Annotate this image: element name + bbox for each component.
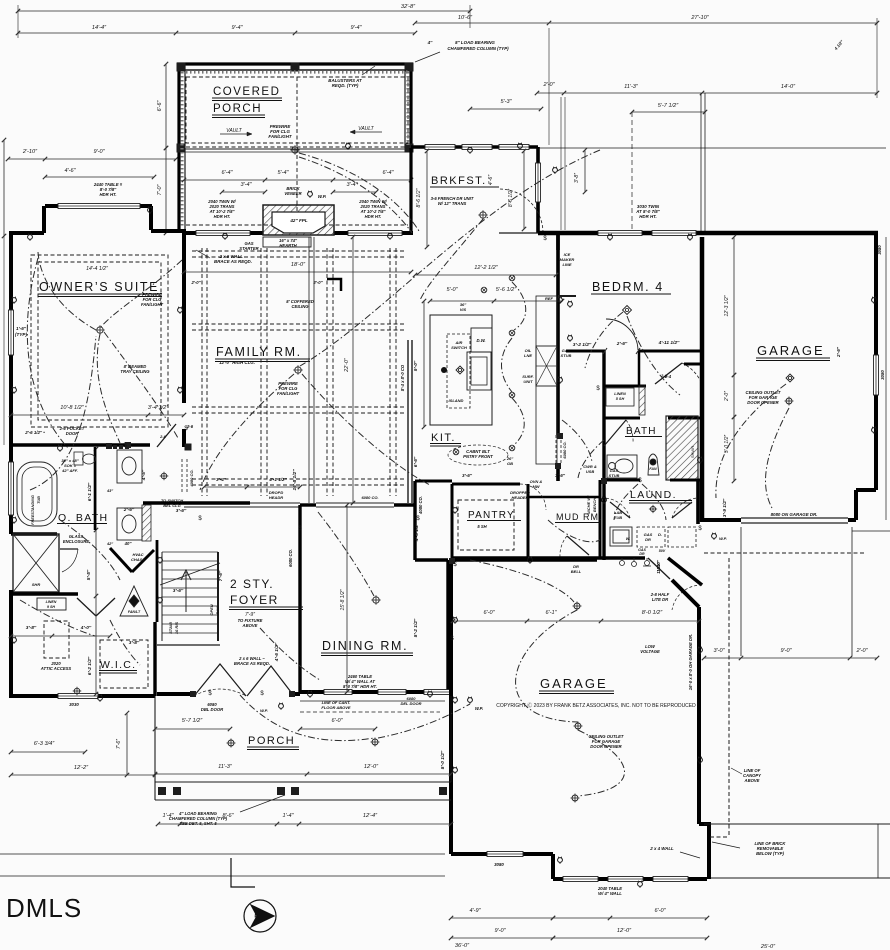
svg-text:TUB: TUB [37, 496, 41, 504]
driveway right edge v [877, 824, 879, 878]
room label DINING RM [321, 639, 413, 656]
svg-text:3′-8″: 3′-8″ [26, 625, 37, 631]
duplex outlet 14 [872, 297, 877, 304]
svg-text:HEADR: HEADR [269, 495, 283, 500]
dim line 12-2.5 [413, 273, 558, 277]
svg-text:KIT.: KIT. [431, 432, 456, 444]
jamb post bath hall [557, 433, 563, 439]
svg-text:TUB: TUB [614, 515, 622, 520]
duplex outlet 6 [178, 307, 183, 314]
room label MUD RM [555, 512, 603, 523]
bedrm4 south wall R [638, 350, 702, 353]
fireplace hatched box [263, 205, 334, 235]
electrical wiring family arc to kit [302, 374, 430, 485]
duplex outlet 34 [12, 637, 17, 644]
porch dashed low h [186, 224, 408, 226]
svg-text:4″: 4″ [427, 40, 434, 45]
dining right jog [415, 558, 448, 561]
jamb post laund [601, 478, 607, 484]
wic bottom window 3030 [58, 694, 98, 699]
porch door outlet [279, 703, 284, 710]
kitchen island sink box [467, 352, 491, 390]
svg-text:BRKFST.: BRKFST. [431, 175, 487, 187]
svg-text:2 x 4 WALL: 2 x 4 WALL [649, 846, 674, 851]
duplex outlet 33 [12, 517, 17, 524]
duplex outlet 7 [178, 387, 183, 394]
dining bottom window3 [424, 690, 450, 695]
closet divider v [638, 351, 641, 386]
owners bottom wall seg1 [11, 443, 150, 446]
pantry-mud divider wall [527, 484, 530, 558]
right short line y531 [852, 530, 890, 532]
svg-text:42″ AFF.: 42″ AFF. [61, 468, 78, 473]
owners wall post a [106, 443, 112, 449]
svg-text:7′-6″: 7′-6″ [218, 570, 224, 581]
svg-text:ABOVE: ABOVE [744, 778, 760, 783]
family coffered dash h2b [192, 412, 404, 414]
family room top wall left seg [184, 231, 263, 235]
svg-text:14′-4 1/2″: 14′-4 1/2″ [86, 266, 108, 272]
electrical wiring porch arc bottom2 [378, 704, 470, 738]
leader line col [415, 52, 440, 62]
garage divider wall [700, 237, 705, 522]
svg-text:RAIL: RAIL [215, 605, 220, 615]
svg-text:3030: 3030 [69, 702, 79, 707]
svg-text:2′-6″: 2′-6″ [836, 346, 841, 358]
electrical wiring owners arc fan to sw [97, 334, 120, 443]
laundry bottom wall [600, 556, 645, 560]
garage top wall (south of pantry) [451, 558, 453, 562]
obath left window [9, 462, 14, 515]
bath door arc sm [626, 420, 633, 443]
svg-text:3′-6″: 3′-6″ [462, 473, 473, 478]
title DMLS [6, 893, 82, 923]
svg-text:FAN: FAN [649, 467, 657, 471]
svg-text:W.I.C.: W.I.C. [100, 659, 136, 671]
svg-text:8′-6 1/2″: 8′-6 1/2″ [508, 189, 514, 208]
wic door diag b [96, 598, 115, 616]
dining right wall upper [413, 481, 416, 560]
garage bottom window B2 [608, 877, 643, 882]
pantry bottom + mud bottom wall [452, 556, 600, 560]
porch light bottom [371, 738, 380, 747]
dim 4'-6 line [43, 175, 156, 179]
canopy solid v left [740, 527, 742, 656]
porch col 1a [158, 787, 166, 795]
dim 5'-7 1/2'' [630, 110, 707, 114]
porch column top-left [177, 63, 186, 72]
wic right wall [153, 622, 156, 696]
svg-text:6′-4″: 6′-4″ [382, 170, 394, 176]
porch slab edge v [154, 696, 156, 800]
stair rail right [217, 552, 219, 641]
garage door south wall left [704, 518, 741, 522]
porch col 1b [173, 787, 181, 795]
svg-text:2′-0″: 2′-0″ [855, 648, 868, 654]
svg-text:3′-8″: 3′-8″ [574, 173, 580, 183]
fan/lt triangle [120, 586, 148, 616]
room label WIC [99, 659, 137, 673]
svg-text:16′-0 x 8′-0 OH GARAGE DR.: 16′-0 x 8′-0 OH GARAGE DR. [688, 634, 693, 690]
dining left wall [298, 505, 301, 692]
pantry top wall [452, 483, 520, 486]
room label BRKFST [430, 175, 499, 187]
room label BEDRM4 [591, 280, 671, 294]
bedrm4 fan [623, 306, 632, 315]
family-kit beam line1 [308, 237, 310, 503]
duplex outlet 22 [453, 617, 458, 624]
kitchen can light 3 [509, 392, 515, 398]
electrical wiring porch arc bottom [240, 695, 374, 741]
svg-text:9′-0″: 9′-0″ [494, 928, 506, 934]
svg-text:W/ 4″ WALL: W/ 4″ WALL [598, 891, 622, 896]
svg-text:4080 CO.: 4080 CO. [189, 469, 194, 487]
obath toilet [74, 452, 96, 465]
svg-text:1′-10″: 1′-10″ [656, 561, 661, 573]
svg-text:W.P.: W.P. [475, 706, 483, 711]
col leader line [240, 795, 285, 812]
dim line 2-0 right [732, 373, 736, 419]
covered porch left wall [177, 64, 180, 233]
svg-text:COPYRIGHT Ⓒ 2023 BY FRANK BETZ: COPYRIGHT Ⓒ 2023 BY FRANK BETZ ASSOCIATE… [496, 702, 696, 709]
dim line garage top [451, 619, 701, 623]
room label COVERED PORCH line1 [212, 86, 282, 101]
north arrow [231, 858, 276, 932]
svg-text:42″: 42″ [106, 542, 113, 546]
dimension 32'-8'' line [16, 9, 472, 13]
bottom ext line long [0, 853, 445, 855]
svg-text:REF: REF [545, 296, 554, 301]
family top window right [348, 231, 402, 236]
hvac hatch band [142, 505, 151, 541]
electrical wiring garage bottom S curve2 [578, 730, 625, 796]
svg-text:6′-6″: 6′-6″ [157, 100, 163, 112]
hall CO dashed b [186, 459, 188, 494]
dim 7'-0 porch v [164, 146, 168, 235]
svg-text:22′-0″: 22′-0″ [344, 357, 350, 373]
svg-text:9′-4″: 9′-4″ [231, 25, 243, 31]
owners left exterior wall [9, 231, 13, 447]
duplex outlet 23 [453, 697, 458, 704]
dim line 18-0 family [182, 270, 413, 274]
svg-text:8′-6 1/2″: 8′-6 1/2″ [416, 188, 422, 207]
svg-text:2′-0″: 2′-0″ [312, 280, 323, 285]
room label BATH [625, 426, 662, 437]
garage right jog [856, 488, 876, 492]
garage bottom window 3080 [487, 852, 523, 857]
jamb post kitchen co [555, 463, 561, 469]
svg-text:LINEN: LINEN [46, 600, 57, 604]
svg-text:FAMILY RM.: FAMILY RM. [216, 345, 302, 359]
duplex outlet 13 [688, 234, 693, 241]
svg-text:4′-3 1/2″: 4′-3 1/2″ [414, 522, 420, 542]
family coffered dash v1b [266, 248, 268, 496]
dim line 8-6.5 brkfst [425, 149, 429, 249]
svg-text:(TYP): (TYP) [15, 332, 27, 337]
svg-text:D.W.: D.W. [477, 338, 486, 343]
porch hatch top [186, 70, 408, 73]
bedrm4 wall ticks [603, 348, 640, 354]
wic bottom wall [11, 694, 155, 698]
electrical wiring bedrm4 arc [585, 312, 623, 368]
electrical wiring owners arc fan to door [104, 332, 178, 438]
duplex outlet 12 [608, 234, 613, 241]
svg-text:5: 5 [254, 912, 260, 924]
kitchen range box [536, 346, 557, 386]
wp outlet drv [712, 533, 717, 540]
family coffered dash h2 [192, 406, 404, 408]
left edge vertical dim line [2, 138, 6, 238]
svg-text:4′-1 1/2″: 4′-1 1/2″ [268, 477, 287, 482]
duplex outlet 20 [602, 497, 607, 504]
svg-text:CHASE: CHASE [131, 557, 145, 562]
svg-text:4′-6″: 4′-6″ [64, 168, 76, 174]
duplex outlet 21 [698, 457, 703, 464]
electrical wiring wic arc [110, 620, 140, 665]
porch slab line left [155, 781, 451, 783]
brkfst light [478, 210, 487, 219]
room label OWNERS SUITE [38, 280, 162, 297]
family coffered dash v2 [326, 248, 328, 496]
svg-text:43″: 43″ [106, 489, 113, 493]
svg-text:BRACE AS REQD.: BRACE AS REQD. [234, 661, 270, 666]
svg-text:BENCH: BENCH [592, 498, 597, 512]
svg-text:GARAGE: GARAGE [757, 343, 825, 358]
ext line x877 [876, 18, 878, 98]
duplex outlet 5 [58, 445, 63, 452]
bottom garage top wall [452, 558, 597, 562]
svg-text:2′-0″: 2′-0″ [724, 391, 730, 402]
electrical wiring garage right arc [716, 384, 786, 498]
bedrm4 window2 [652, 231, 696, 236]
svg-text:CHAMFERED COLUMN (TYP): CHAMFERED COLUMN (TYP) [447, 46, 509, 51]
svg-text:SWITCH: SWITCH [451, 345, 467, 350]
svg-text:5′-3″: 5′-3″ [500, 99, 512, 105]
porch ceiling light [290, 145, 299, 154]
svg-text:5′-0″: 5′-0″ [446, 287, 458, 293]
duplex outlet 31 [158, 557, 163, 564]
svg-text:HEADER: HEADER [512, 495, 529, 500]
room label GARAGE right [756, 343, 830, 361]
svg-text:BELOW (TYP): BELOW (TYP) [756, 851, 784, 856]
kitchen right wall lower [556, 465, 560, 481]
electrical wiring obath arc2 [20, 600, 95, 636]
family coffered dash h1 [192, 323, 404, 325]
kitchen counter band right [536, 296, 557, 464]
dim line drv [702, 656, 879, 660]
svg-text:12′-3 1/2″: 12′-3 1/2″ [724, 295, 730, 316]
svg-text:2′-6 1/2″ •: 2′-6 1/2″ • [24, 430, 45, 435]
hall-south wall over pantry [415, 480, 452, 483]
electrical wiring owners arc left low [30, 336, 96, 490]
bottom garage bottom wall B [553, 877, 707, 881]
family coffered dash h3 [192, 478, 404, 480]
door mark b [119, 445, 123, 449]
svg-text:BEDRM. 4: BEDRM. 4 [592, 280, 664, 294]
stair treads [162, 552, 218, 633]
mudrm left wall [599, 480, 602, 558]
dim line dining v [345, 503, 349, 694]
porch light bottom2 [227, 739, 236, 748]
duplex outlet 30 [428, 691, 433, 698]
laundry light [649, 505, 657, 513]
garage outlet sym1 [573, 602, 582, 611]
bedrm4 door arc [606, 319, 638, 350]
room label KIT [430, 432, 461, 446]
electrical wiring bedrm4 arc2 [627, 316, 680, 395]
svg-text:MW: MW [532, 484, 540, 489]
svg-text:3′-4″: 3′-4″ [240, 182, 252, 188]
covered porch top wall [177, 62, 413, 65]
bath vanity [607, 455, 637, 478]
svg-text:VIS: VIS [460, 307, 467, 312]
canopy leader [731, 768, 742, 774]
svg-text:HDR HT.: HDR HT. [214, 214, 231, 219]
svg-text:11′-3″: 11′-3″ [624, 84, 639, 90]
closet door arc [682, 363, 700, 380]
svg-text:3′-6″: 3′-6″ [173, 588, 184, 594]
porch col 2b [291, 787, 299, 795]
electrical wiring kit arc cans2 [502, 338, 513, 392]
svg-text:36′-0″: 36′-0″ [455, 943, 470, 949]
porch column top-right [405, 63, 414, 72]
linen front wall [604, 385, 646, 388]
svg-text:6′-0″: 6′-0″ [331, 718, 343, 724]
svg-text:18′-0″: 18′-0″ [291, 262, 306, 268]
porch slab line left2 [155, 799, 451, 801]
svg-text:32′-8″: 32′-8″ [401, 4, 416, 10]
electrical wiring laund arc2 [642, 484, 666, 520]
svg-text:8″ LOAD BEARING: 8″ LOAD BEARING [455, 40, 495, 45]
duplex outlet 28 [638, 881, 643, 888]
hall CO dashed a [181, 459, 183, 494]
dining bottom window2 [378, 690, 406, 695]
svg-text:HDR HT.: HDR HT. [99, 192, 116, 197]
bedrm4 window1 [598, 231, 642, 236]
brick leader [712, 842, 740, 848]
svg-text:14′-4″: 14′-4″ [92, 25, 107, 31]
room label GARAGE bottom [539, 676, 614, 694]
covered porch top wall inner [177, 69, 413, 71]
canopy dashed h [710, 836, 729, 838]
ext line x565 [564, 97, 566, 230]
svg-text:VAULT: VAULT [226, 128, 242, 134]
svg-text:25′-0″: 25′-0″ [760, 944, 776, 950]
garage outlet sym3 [571, 794, 580, 803]
duplex outlet 10 [468, 147, 473, 154]
attic access dashed [44, 621, 69, 658]
dim 8-6.5r line [522, 149, 526, 231]
kitchen can light 5 [453, 449, 459, 455]
svg-text:W/ 12″ TRANS: W/ 12″ TRANS [438, 201, 467, 206]
svg-text:1′-4″: 1′-4″ [162, 813, 174, 819]
svg-text:9′-0″: 9′-0″ [413, 360, 419, 371]
brkfst door leaf [499, 232, 543, 234]
gas meter 2 [632, 558, 637, 567]
hall niche wall [558, 295, 576, 297]
svg-text:6′-4″: 6′-4″ [221, 170, 233, 176]
dining top-cased opening L [300, 503, 316, 506]
pantry left wall [451, 484, 454, 558]
2x4 leader [680, 852, 700, 858]
kitchen right wall [556, 233, 560, 435]
kitchen can light 6 [481, 287, 487, 293]
family cased opening line2 [411, 340, 413, 503]
svg-text:GB: GB [507, 461, 513, 466]
bath top wall [604, 417, 640, 420]
duplex outlet 37 [518, 143, 523, 150]
owners tray ceiling dashed outer [31, 255, 168, 427]
family coffered dash h0b [192, 256, 404, 258]
svg-text:8′-0 1/2″: 8′-0 1/2″ [440, 750, 446, 769]
room label LAUND [629, 489, 692, 503]
duplex outlet 15 [872, 427, 877, 434]
dim line 22-0 [351, 235, 355, 505]
svg-text:LINE: LINE [562, 262, 571, 267]
svg-text:7′-6″: 7′-6″ [116, 739, 122, 749]
dim line 3-4 a [220, 190, 267, 194]
garage right window 3080 [874, 355, 879, 395]
svg-text:6080 CO.: 6080 CO. [361, 495, 378, 500]
porch slab edge v2 [450, 696, 452, 782]
dim line 12-2 [9, 773, 157, 777]
porch dashed mid vert [296, 77, 298, 226]
svg-text:UNIT: UNIT [523, 379, 533, 384]
svg-text:DBL DOOR: DBL DOOR [201, 707, 223, 712]
room label FOYER line2 [229, 593, 303, 610]
svg-text:STUB: STUB [609, 473, 620, 478]
stair left wall [156, 540, 159, 622]
svg-text:NICHE W/: NICHE W/ [586, 495, 591, 514]
svg-text:5′-4″: 5′-4″ [277, 170, 289, 176]
svg-text:5′-7 1/2″: 5′-7 1/2″ [658, 103, 679, 109]
room label PANTRY [467, 510, 521, 521]
jamb post pantry [449, 558, 455, 564]
kitchen range X [536, 346, 557, 386]
dim line porch cols [156, 822, 453, 826]
electrical wiring porch light to brkfst arc [299, 153, 419, 231]
hearth rect [263, 237, 311, 247]
electrical wiring obath arc [60, 520, 120, 580]
svg-text:2′-10″: 2′-10″ [22, 149, 38, 155]
electrical wiring owners arc fan left [38, 252, 96, 330]
svg-text:VAULT: VAULT [358, 126, 374, 132]
dim line 9-0 bot [449, 936, 555, 940]
kitchen island sink inner [471, 357, 487, 385]
dimension row 14-4/9-4/9-4 [16, 31, 417, 35]
family-kit beam line2 [313, 237, 315, 503]
duplex outlet 17 [558, 377, 563, 384]
svg-text:W.P.: W.P. [719, 536, 727, 541]
duplex outlet 1 [28, 234, 33, 241]
svg-text:12′-2 1/2″: 12′-2 1/2″ [474, 265, 499, 271]
duplex outlet 9 [388, 233, 393, 240]
porch hatch left [180, 72, 183, 228]
svg-text:5′-7 1/2″: 5′-7 1/2″ [182, 718, 203, 724]
dim line porch 2 [153, 772, 453, 776]
dim line 6-3.75 [9, 750, 87, 754]
kit cabnt cloud [448, 445, 508, 465]
foyer bottom wall right [293, 692, 300, 696]
brkfst right window [536, 163, 541, 202]
svg-text:7′-0″: 7′-0″ [157, 184, 163, 196]
svg-text:O. BATH: O. BATH [58, 512, 108, 524]
svg-text:4′-9″: 4′-9″ [469, 908, 481, 914]
garage bottom window B3 [653, 877, 688, 882]
duplex outlet 29 [308, 691, 313, 698]
svg-text:FAN/LIGHT: FAN/LIGHT [277, 391, 300, 396]
covered porch right wall inner [404, 70, 406, 148]
